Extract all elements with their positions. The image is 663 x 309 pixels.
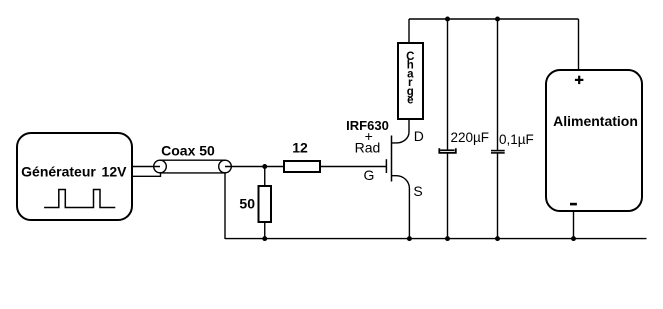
coax cable right end (circle) <box>219 160 232 173</box>
transistor Q1 source lead (curve down to ground rail) <box>392 176 410 239</box>
wire: resistor 12 to MOSFET gate <box>320 166 387 168</box>
wire: generator return to coax shield <box>132 173 161 176</box>
svg-text:S: S <box>413 183 422 199</box>
junction: C1 / ground rail <box>445 236 450 241</box>
junction: top rail / C1 <box>445 17 450 22</box>
label "0,1µF" <box>499 132 534 147</box>
svg-text:D: D <box>414 128 424 144</box>
label "50" <box>239 196 255 212</box>
label "G" (gate pin) <box>364 167 375 183</box>
wire: generator output to coax inner conductor <box>132 166 160 168</box>
wire: node A to resistor 12 <box>265 166 284 168</box>
wire: power supply - to ground rail <box>573 211 575 239</box>
coax cable body bottom line <box>160 172 225 174</box>
power supply box (Alimentation) <box>546 70 642 211</box>
transistor Q1 IRF630 gate bar <box>385 159 387 173</box>
svg-text:0,1µF: 0,1µF <box>499 132 534 147</box>
svg-text:Rad: Rad <box>355 139 381 155</box>
wire: top rail down to power supply + <box>578 19 580 70</box>
load box "Charge" <box>398 43 423 119</box>
svg-text:Générateur: Générateur <box>21 164 96 180</box>
junction: resistor 50 / ground rail <box>262 236 267 241</box>
wire: resistor 50 to ground rail <box>264 222 266 239</box>
wire: coax output to node A <box>225 166 265 168</box>
svg-text:12V: 12V <box>102 164 128 180</box>
label "Coax 50" <box>161 143 215 159</box>
capacitor C2 0,1µF top plate <box>491 150 505 152</box>
wire: top rail down to charge box <box>408 19 410 43</box>
junction: supply / ground rail <box>571 236 576 241</box>
svg-text:220µF: 220µF <box>451 130 490 145</box>
label "D" (drain pin) <box>414 128 424 144</box>
label "Générateur" <box>21 164 96 180</box>
label "12V" <box>102 164 128 180</box>
svg-text:G: G <box>364 167 375 183</box>
label "Rad" <box>355 139 381 155</box>
svg-text:e: e <box>407 95 413 107</box>
pulse waveform symbol <box>44 190 115 208</box>
wire: capacitor C1 to ground rail <box>447 153 449 239</box>
top supply rail <box>409 18 579 20</box>
junction: C2 / ground rail <box>495 236 500 241</box>
plus terminal symbol <box>575 76 584 84</box>
label "Alimentation" <box>553 113 638 129</box>
label "IRF630" <box>346 118 389 133</box>
label "S" (source pin) <box>413 183 422 199</box>
label "220µF" <box>451 130 490 145</box>
svg-text:12: 12 <box>292 140 308 156</box>
svg-text:Coax 50: Coax 50 <box>161 143 215 159</box>
label "+" (heatsink note) <box>365 128 373 144</box>
generator box (Générateur) <box>17 133 132 220</box>
wire: coax shield down to ground rail <box>224 173 226 239</box>
capacitor C1 220µF top plate <box>440 149 454 151</box>
coax cable body top line <box>160 159 225 161</box>
wire: capacitor C2 to ground rail <box>497 153 499 239</box>
transistor Q1 drain lead (curve up to Charge) <box>392 119 410 143</box>
label "Charge" (stacked letters) <box>406 51 414 107</box>
node A (junction coax / R50 / R12) <box>262 164 267 169</box>
svg-text:50: 50 <box>239 196 255 212</box>
label "12" <box>292 140 308 156</box>
resistor 50 (termination) <box>259 186 272 222</box>
coax cable left end (circle) <box>154 160 167 173</box>
wire: top rail down to capacitor C2 <box>497 19 499 150</box>
wire: top rail down to capacitor C1 <box>447 19 449 150</box>
resistor 12 (gate resistor) <box>284 161 320 172</box>
minus terminal symbol <box>570 203 577 206</box>
junction: source / ground rail <box>407 236 412 241</box>
junction: top rail / C2 <box>495 17 500 22</box>
wire: node A down to resistor 50 <box>264 167 266 187</box>
capacitor C1 220µF bottom plate (polarized tray) <box>439 148 456 153</box>
svg-text:Alimentation: Alimentation <box>553 113 638 129</box>
bottom ground rail <box>225 238 647 240</box>
transistor Q1 channel bar <box>391 136 393 182</box>
capacitor C2 0,1µF bottom plate <box>491 152 505 154</box>
